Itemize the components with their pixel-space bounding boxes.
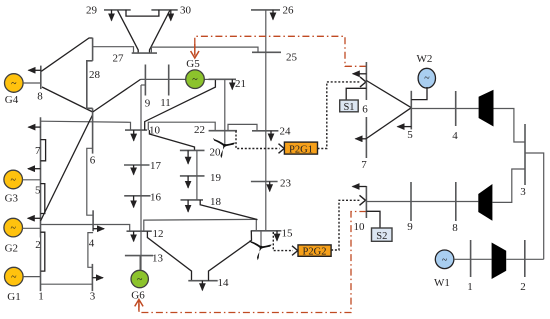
dotted arrowhead into node 6 <box>360 77 366 87</box>
line 10-20 diagonal <box>149 130 194 150</box>
load arrow bus 10 <box>133 130 135 141</box>
bus 7 label <box>34 144 40 156</box>
bus 8 bar <box>40 66 42 90</box>
load arrow bus 23 <box>269 182 271 192</box>
svg-text:G5: G5 <box>186 58 200 70</box>
bus 13 bar <box>125 255 153 257</box>
bus 9 bar <box>144 65 146 96</box>
svg-text:29: 29 <box>86 5 98 17</box>
line 5-10 long horizontal <box>41 121 131 130</box>
svg-text:22: 22 <box>194 124 205 136</box>
pipeline W1 to compressor C3 <box>454 258 492 260</box>
load arrow bus 29 <box>111 10 113 21</box>
svg-text:24: 24 <box>280 126 292 138</box>
load arrow bus 2 <box>28 217 41 219</box>
line 12-14 <box>147 231 191 281</box>
red dash-dot link gas node 6 to G5 <box>195 36 367 66</box>
generator G3 circle <box>4 170 23 189</box>
line 8-6 <box>42 87 93 112</box>
line 29-27 <box>118 10 139 53</box>
bus 28 jog <box>87 61 93 109</box>
gas well W1 circle <box>435 250 454 269</box>
dotted arrowhead into P2G2 <box>292 246 298 256</box>
pipeline node5 to compressor C1 <box>411 108 478 110</box>
line 10-22 bracket <box>148 122 215 131</box>
svg-text:S1: S1 <box>343 102 354 113</box>
svg-text:6: 6 <box>90 155 96 167</box>
load arrow bus 20 <box>187 150 189 163</box>
line 30-27 <box>150 10 170 53</box>
svg-text:5: 5 <box>407 129 413 141</box>
bus 5 bump <box>41 184 45 214</box>
line G5 to bus 21 <box>204 78 208 80</box>
svg-text:8: 8 <box>37 91 43 103</box>
load arrow bus 21 <box>231 79 233 89</box>
gas node 4 bus <box>455 91 457 126</box>
line 29-30 <box>126 10 159 16</box>
line 1-3 <box>41 283 93 285</box>
svg-text:G1: G1 <box>7 291 20 303</box>
svg-text:18: 18 <box>210 196 222 208</box>
bus 10 bar <box>125 129 147 131</box>
line 4-3 jog <box>88 233 93 268</box>
svg-text:30: 30 <box>180 5 192 17</box>
svg-text:8: 8 <box>452 222 458 234</box>
load arrow bus 17 <box>133 165 135 175</box>
bus 16 bar <box>124 195 150 197</box>
bus 17 bar <box>124 164 150 166</box>
bus 7 bump <box>41 140 46 161</box>
generator G2 circle <box>4 218 23 237</box>
bus-6 to bus-4 link <box>87 148 93 215</box>
outflow arrow bus 3 <box>92 277 103 279</box>
gas node 7 bus <box>365 117 367 158</box>
G3 stem <box>23 179 41 181</box>
svg-text:12: 12 <box>153 228 164 240</box>
G2 stem <box>23 227 41 229</box>
bus 3 bar <box>91 264 93 291</box>
bus 12 bar <box>127 230 152 232</box>
bus-6 column top <box>92 38 94 61</box>
svg-text:16: 16 <box>150 192 162 204</box>
svg-text:15: 15 <box>282 228 294 240</box>
mid vertical 9-10-17-16-12 <box>140 85 142 270</box>
svg-text:26: 26 <box>283 5 295 17</box>
S1 stem <box>346 88 366 100</box>
svg-text:21: 21 <box>235 78 246 90</box>
svg-text:S2: S2 <box>376 231 387 242</box>
gas node 10 bus <box>365 186 367 218</box>
bus 24 bar <box>252 130 278 132</box>
bus 29 bar <box>104 9 131 11</box>
G6 stem <box>139 256 141 271</box>
svg-text:~: ~ <box>11 79 17 90</box>
svg-text:23: 23 <box>280 178 292 190</box>
svg-text:P2G2: P2G2 <box>303 247 327 258</box>
svg-text:G3: G3 <box>5 193 19 205</box>
gas node 2 bus <box>524 240 526 277</box>
svg-text:25: 25 <box>286 52 298 64</box>
svg-text:10: 10 <box>354 221 366 233</box>
line 22-24 bracket <box>228 124 257 130</box>
bus 5 label <box>34 184 40 195</box>
gas storage S1 box <box>340 100 359 112</box>
svg-text:G4: G4 <box>5 94 19 106</box>
load arrow bus 12 <box>133 231 135 241</box>
bus 2 label <box>34 238 40 249</box>
generator G6 circle <box>131 270 148 287</box>
svg-text:P2G1: P2G1 <box>289 144 313 155</box>
bus 4 bar <box>92 210 94 231</box>
gas load arrow node 5 <box>398 126 412 128</box>
bus 22 bar <box>209 130 237 132</box>
pipeline C2 to node 3 <box>492 169 525 202</box>
svg-text:5: 5 <box>35 184 41 196</box>
svg-text:W1: W1 <box>434 277 450 289</box>
svg-text:9: 9 <box>145 98 151 110</box>
line 25-24 <box>265 52 267 131</box>
load arrow bus 26 <box>272 10 274 20</box>
P2G2 box <box>298 245 331 256</box>
svg-text:3: 3 <box>520 186 526 198</box>
svg-text:14: 14 <box>218 277 230 289</box>
bus 14 bar <box>188 280 217 282</box>
compressor C2 <box>478 184 492 221</box>
load arrow bus 19 <box>187 176 189 188</box>
svg-text:27: 27 <box>113 53 125 65</box>
load arrow (below bus 8 tap) <box>28 126 40 128</box>
line 2-4 <box>41 225 130 232</box>
load arrow bus 8 <box>29 69 41 71</box>
bus 19 bar <box>180 175 205 177</box>
line 23-15 <box>265 182 267 231</box>
gas node 3 bus <box>524 124 526 185</box>
bus 2 bump <box>41 232 45 271</box>
red dash-dot link gas node 10 to G6 <box>139 212 366 313</box>
svg-text:20: 20 <box>210 147 222 159</box>
svg-text:~: ~ <box>10 223 16 234</box>
pipeline C3 to node 2 <box>506 258 544 260</box>
gas storage S2 box <box>372 228 393 241</box>
W2 stem <box>411 87 427 100</box>
bus 21 bar <box>209 78 237 80</box>
svg-text:2: 2 <box>520 281 526 293</box>
svg-text:3: 3 <box>90 291 96 303</box>
line 28-27 <box>93 47 134 53</box>
svg-text:~: ~ <box>10 175 16 186</box>
load arrow bus 18 <box>187 200 189 212</box>
left main line (buses 5-2-1 column) <box>40 117 42 291</box>
compressor C1 <box>479 90 494 127</box>
svg-text:17: 17 <box>150 160 162 172</box>
bus 15 bar <box>251 230 282 232</box>
dotted arrowhead into P2G1 <box>279 144 285 154</box>
bus 30 bar <box>151 9 177 11</box>
dotted link P2G1 to gas node 6 <box>318 82 361 149</box>
bus 20 bar <box>180 149 205 151</box>
svg-text:G2: G2 <box>5 242 18 254</box>
svg-text:~: ~ <box>424 73 430 84</box>
svg-text:~: ~ <box>442 255 448 266</box>
bus 11 bar <box>168 65 170 96</box>
svg-text:4: 4 <box>452 130 458 142</box>
line 21-22 <box>224 79 226 144</box>
bus 18 bar <box>181 199 204 201</box>
bus 23 bar <box>251 181 278 183</box>
line 20-19-18 <box>196 150 198 200</box>
svg-text:1: 1 <box>38 291 44 303</box>
gas well W2 circle <box>418 68 435 88</box>
svg-text:~: ~ <box>137 275 143 286</box>
svg-text:13: 13 <box>152 253 164 265</box>
load arrow bus 16 <box>133 196 135 208</box>
outflow arrow bus 4 <box>93 228 104 230</box>
line 6 to 9/11 diagonal <box>93 79 141 112</box>
svg-text:7: 7 <box>35 145 41 157</box>
pipeline C1 to node 3 <box>494 109 526 143</box>
line 24-23 <box>265 131 267 182</box>
gas node 5 bus <box>410 91 412 130</box>
svg-text:2: 2 <box>35 239 41 251</box>
bus 25 bar <box>252 51 281 53</box>
generator G4 circle <box>5 74 24 93</box>
svg-text:W2: W2 <box>417 53 433 65</box>
svg-text:7: 7 <box>361 159 367 171</box>
svg-text:~: ~ <box>11 272 17 283</box>
line 2-6 diagonal <box>41 115 93 221</box>
svg-text:1: 1 <box>467 281 473 293</box>
S2 stem <box>366 211 380 228</box>
dotted link bus15 to P2G2 <box>273 232 293 251</box>
gas load arrow node 10 <box>353 186 367 188</box>
red arrow into G6 <box>135 299 143 310</box>
line 10-21 diagonal <box>145 79 216 130</box>
wind turbine at bus 22 <box>213 138 235 158</box>
red arrow into G5 <box>191 44 199 58</box>
load arrow bus 24 <box>270 131 272 141</box>
gas node 9 bus <box>410 182 412 221</box>
tick 9 to mid vertical <box>141 84 145 86</box>
svg-text:6: 6 <box>362 104 368 116</box>
compressor C3 <box>492 243 507 280</box>
bus 27 bar <box>132 52 157 54</box>
svg-text:11: 11 <box>160 97 171 109</box>
gas load arrow node 6 <box>353 73 367 75</box>
load arrow bus 15 <box>276 231 278 241</box>
G4 stem <box>23 82 41 84</box>
line 27-25 <box>151 47 258 53</box>
pipeline 6-5 <box>366 81 411 108</box>
dotted arrowhead into node 10 <box>360 195 366 205</box>
svg-text:4: 4 <box>89 238 95 250</box>
wind turbine at bus 15 <box>249 240 271 260</box>
generator G1 circle <box>5 267 24 286</box>
line 15-14 <box>209 231 252 281</box>
svg-text:9: 9 <box>407 221 413 233</box>
bus 26 bar <box>251 9 280 11</box>
line 12-15 <box>144 219 256 231</box>
line 18-15 <box>200 200 257 220</box>
gas node 1 bus <box>470 240 472 277</box>
load arrow bus 5 <box>28 168 41 170</box>
stem bus15 to wind turbine <box>260 231 262 246</box>
pipeline 7-5 <box>366 108 411 139</box>
dotted link P2G2 to gas node 10 <box>331 200 360 250</box>
line 8-28 (to top of bus-6 column) <box>41 38 92 71</box>
G1 stem <box>23 276 40 278</box>
dotted link bus22 to P2G1 <box>236 131 280 149</box>
gas node 6 bus <box>365 62 367 100</box>
bus-6 bar segment <box>92 108 94 153</box>
load arrow bus 14 <box>201 281 203 291</box>
load arrow bus 30 <box>170 10 172 21</box>
pipeline node10 to compressor C2 <box>366 201 478 203</box>
line 25-26 <box>265 10 267 52</box>
svg-text:19: 19 <box>210 172 222 184</box>
line 9/11 horizontal to G5 <box>141 78 186 80</box>
gas load arrow node 7 <box>356 138 367 140</box>
generator G5 circle <box>186 70 205 89</box>
gas node 8 bus <box>455 182 457 221</box>
svg-text:28: 28 <box>89 69 101 81</box>
pipeline 3-2 <box>525 153 544 259</box>
P2G1 box <box>284 142 317 154</box>
svg-text:~: ~ <box>192 75 198 86</box>
